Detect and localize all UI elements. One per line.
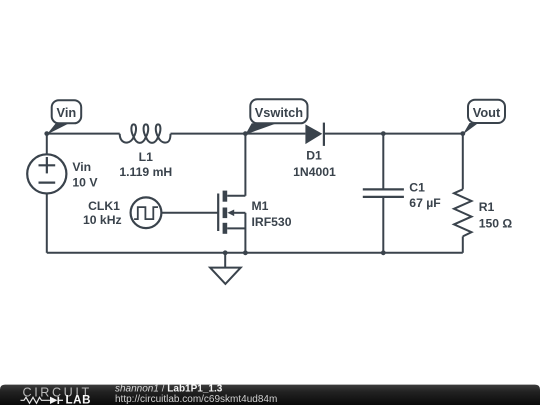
wire top rail mid: inductor to diode anode (through Vswitch node)	[171, 133, 306, 135]
wire left vertical: source Vin bottom to bottom rail	[46, 194, 48, 253]
svg-text:http://circuitlab.com/c69skmt4: http://circuitlab.com/c69skmt4ud84m	[115, 394, 277, 405]
M1 source lead	[227, 227, 245, 229]
node dot Vout	[460, 131, 465, 136]
node label box Vswitch	[250, 99, 307, 123]
node dot C1 bottom	[381, 250, 386, 255]
M1 channel dashes	[223, 191, 228, 202]
node label box Vin	[52, 100, 81, 123]
logo resistor squiggle	[21, 397, 51, 403]
wire CLK1 to M1 gate	[161, 212, 218, 214]
svg-text:150 Ω: 150 Ω	[479, 217, 513, 231]
wire top rail right: diode cathode to Vout node	[324, 133, 463, 135]
voltage source Vin circle	[27, 154, 66, 193]
clock source CLK1 circle	[131, 197, 162, 228]
svg-text:M1: M1	[252, 199, 269, 213]
wire Vout node down to R1 top	[462, 134, 464, 190]
wire C1 bottom	[382, 197, 384, 253]
svg-text:10 kHz: 10 kHz	[83, 213, 122, 227]
M1 body arrow line	[233, 212, 245, 214]
CLK1 square wave glyph	[134, 207, 158, 219]
svg-text:Vswitch: Vswitch	[255, 105, 304, 120]
svg-text:67 µF: 67 µF	[409, 196, 440, 210]
svg-text:IRF530: IRF530	[252, 215, 292, 229]
wire Vswitch node down to M1 drain	[244, 134, 246, 196]
M1 drain lead	[227, 195, 245, 197]
D1 cathode bar	[323, 123, 325, 146]
node dot Vin	[44, 131, 49, 136]
svg-text:Vin: Vin	[72, 160, 91, 174]
svg-text:CLK1: CLK1	[88, 199, 120, 213]
node dot Vswitch	[243, 131, 248, 136]
svg-text:Vout: Vout	[473, 105, 501, 120]
wire R1 bottom to rail	[462, 236, 464, 252]
M1 body arrow head	[227, 210, 234, 217]
logo diode	[50, 397, 58, 404]
node label tail Vout	[463, 123, 479, 135]
wire top rail left: node Vin to inductor	[47, 133, 120, 135]
wire left vertical: node Vin down to source Vin top	[46, 134, 48, 155]
ground symbol	[210, 268, 241, 284]
svg-text:1N4001: 1N4001	[293, 165, 336, 179]
diode D1	[305, 124, 322, 144]
node label tail Vin	[47, 123, 69, 134]
svg-text:Vin: Vin	[57, 105, 77, 120]
node dot C1 top	[381, 131, 386, 136]
node dot ground	[223, 250, 228, 255]
node dot M1 source	[243, 250, 248, 255]
wire bottom rail	[47, 252, 463, 254]
node label box Vout	[468, 100, 505, 123]
M1 gate bar	[217, 194, 219, 232]
svg-text:R1: R1	[479, 200, 495, 214]
svg-text:C1: C1	[409, 181, 425, 195]
wire C1 top	[382, 134, 384, 190]
svg-text:1.119 mH: 1.119 mH	[119, 165, 172, 179]
node label tail Vswitch	[245, 123, 276, 134]
wire ground stub	[224, 253, 226, 272]
capacitor C1 plates	[363, 189, 404, 197]
transistor M1 NMOS	[218, 191, 245, 253]
M1 source vertical to rail	[244, 213, 246, 253]
resistor R1 zigzag	[454, 189, 472, 236]
svg-text:10 V: 10 V	[72, 175, 98, 189]
svg-text:L1: L1	[139, 150, 153, 164]
inductor L1	[120, 124, 171, 142]
svg-text:LAB: LAB	[66, 394, 92, 405]
svg-text:D1: D1	[306, 148, 322, 162]
